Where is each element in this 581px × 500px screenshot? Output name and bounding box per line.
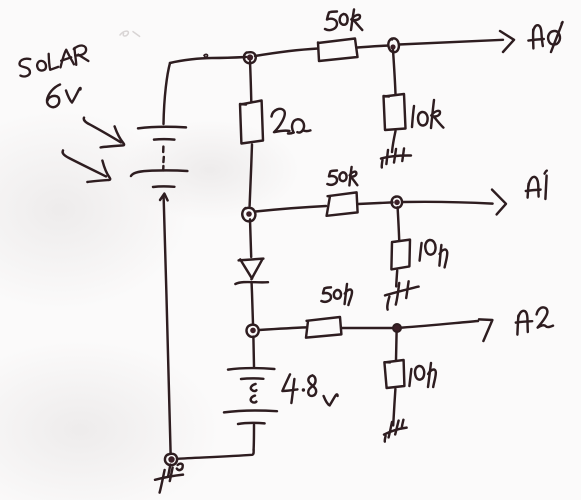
small ink blip on top rail bbox=[204, 54, 208, 57]
wire J1 to A1 arrow bbox=[403, 202, 493, 204]
solar battery plate 4 (short) bbox=[153, 185, 174, 188]
node A (junction of top rail and 2-ohm branch) bbox=[244, 52, 256, 63]
value label 50k (A1 row) bbox=[327, 167, 357, 185]
solar battery plate 1 (long) bbox=[138, 127, 186, 129]
resistor 10k (A2 row) bbox=[384, 360, 404, 388]
label A1 bbox=[526, 171, 547, 199]
wire J0 to A0 arrow bbox=[399, 40, 503, 45]
wire top-left corner to node A (top rail) bbox=[170, 57, 246, 63]
small kink on left wire below solar battery bbox=[160, 194, 168, 201]
ground (A0 row) bbox=[381, 149, 411, 168]
arrow head A0 bbox=[500, 31, 514, 52]
junction J1 (node of A1 rail and 10k divider) bbox=[392, 196, 403, 207]
solar battery dashed center lead bbox=[162, 147, 165, 171]
label SOLAR bbox=[17, 45, 89, 78]
node B (junction of A1 rail and diode branch) bbox=[242, 208, 255, 222]
node C (junction of A2 rail and 4.8V battery branch) bbox=[247, 325, 259, 337]
value label 2-ohm bbox=[272, 109, 311, 134]
value label 50k (A2 row) bbox=[321, 284, 352, 305]
solar battery plate 3 (long with hook) bbox=[131, 170, 187, 176]
wire 10k to ground (A1 row) bbox=[396, 271, 397, 287]
wire bottom rail (battery to ground node) bbox=[177, 450, 254, 459]
arrow head A1 bbox=[492, 190, 506, 215]
junction J2 (node of A2 rail and 10k divider) bbox=[393, 324, 401, 332]
junction J0 (node of A0 rail and 10k divider) bbox=[388, 38, 399, 52]
sun ray arrow 2 (lower) bbox=[63, 150, 111, 182]
faint pencil mark top-left bbox=[120, 31, 140, 36]
battery 4.8V plate 3 (long) bbox=[224, 410, 277, 412]
label 6V (solar) bbox=[47, 85, 81, 108]
wire node B down to diode bbox=[250, 219, 251, 257]
wire node C down to 4.8V battery bbox=[252, 337, 255, 367]
resistor 50k (A1 row) bbox=[327, 192, 358, 215]
wire J0 down to 10k resistor (A0 row) bbox=[393, 50, 396, 94]
resistor 2-ohm bbox=[240, 101, 263, 144]
solar battery plate 2 (short) bbox=[154, 138, 174, 141]
ground (A2 row) bbox=[384, 420, 407, 442]
value label 4.8V bbox=[282, 374, 337, 405]
diode D1 bbox=[235, 259, 268, 284]
label A2 bbox=[516, 307, 553, 334]
battery 4.8V plate 4 (short) bbox=[238, 423, 265, 424]
value label 10k (A1 row) bbox=[420, 240, 448, 267]
wire battery 4.8V to bottom rail bbox=[252, 425, 255, 450]
wire node A down to 2-ohm resistor bbox=[250, 62, 251, 103]
value label 10k (A0 row) bbox=[412, 100, 443, 128]
battery 4.8V cell squiggle bbox=[251, 384, 257, 391]
wire 10k to ground (A0 row) bbox=[392, 131, 396, 152]
battery 4.8V plate 2 (short) bbox=[241, 377, 263, 380]
wire resistor 50k to junction J1 bbox=[358, 202, 393, 204]
resistor 10k (A1 row) bbox=[391, 240, 410, 270]
wire resistor 50k to junction J0 bbox=[358, 46, 389, 48]
label A0 (A-phi) bbox=[528, 22, 562, 52]
wire J2 down to 10k resistor (A2 row) bbox=[395, 332, 398, 360]
value label 10k (A2 row) bbox=[409, 363, 435, 387]
wire resistor 50k to junction J2 bbox=[342, 327, 392, 329]
node G (main ground node) bbox=[165, 454, 177, 465]
wire J2 to A2 arrow bbox=[402, 321, 478, 328]
wire left vertical lower (solar battery down to ground node) bbox=[164, 196, 171, 453]
wire left vertical upper (corner down to solar battery) bbox=[164, 63, 171, 124]
wire node A to resistor 50k (A0) bbox=[255, 49, 318, 57]
arrow head A2 bbox=[479, 319, 492, 341]
sun ray arrow 1 (upper) bbox=[84, 118, 124, 148]
wire node C to resistor 50k (A2 row) bbox=[259, 327, 306, 330]
resistor 50k (A2 row) bbox=[306, 317, 341, 338]
ground (A1 row) bbox=[385, 281, 419, 309]
value label 50k (A0 row) bbox=[325, 10, 362, 31]
battery 4.8V plate 1 (long) bbox=[228, 368, 274, 370]
wire node B to resistor 50k (A1 row) bbox=[256, 206, 327, 212]
wire 2-ohm resistor down to node B bbox=[250, 145, 252, 207]
ground (main, bottom-left) bbox=[155, 464, 183, 493]
resistor 50k (A0 row) bbox=[318, 39, 358, 62]
resistor 10k (A0 row) bbox=[384, 94, 406, 130]
wire J1 down to 10k resistor (A1 row) bbox=[398, 207, 400, 240]
wire 10k to ground (A2 row) bbox=[393, 389, 395, 425]
wire diode to node C bbox=[252, 283, 253, 324]
